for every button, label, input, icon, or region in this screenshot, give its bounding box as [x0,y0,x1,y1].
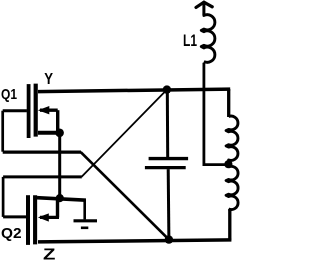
capacitor C (resonant) top plate [149,157,189,160]
wire: cross-coupling diagonal from Q2 gate run to node Y [82,90,167,177]
transformer primary lower half coil [226,166,238,209]
transistor Q2 body stub with arrow [40,216,59,219]
svg-text:L1: L1 [183,32,197,50]
wire: horizontal run at y177 to diagonal [3,175,82,178]
node: Q1 source junction dot [55,129,64,138]
wire: node Y horizontal line (Q1 drain rail) [38,89,230,92]
wire: cross-coupling diagonal from Q1 gate run to node Z [81,152,169,240]
wire: right vertical from Y line down to primary top [227,89,230,117]
inductor L1 coil [201,14,215,63]
capacitor C (resonant) bottom plate [145,166,186,169]
ground symbol short bar [81,227,88,230]
node: junction dot Z line / capacitor / cross wire [165,235,173,243]
node: centre tap junction dot [224,160,232,168]
wire: capacitor bottom lead [167,169,171,239]
transistor Q1 source stub [38,131,60,135]
transistor Q2 gate plate [26,195,30,245]
transistor Q2 body arrowhead [38,213,49,221]
transistor Q1 channel bar [34,84,38,137]
wire: ground branch from Q2 source stub [83,199,86,219]
transistor Q2 source stub (top) [37,198,86,201]
transistor Q1 body arrowhead [38,106,49,114]
transistor Q1 body stub with arrow [40,109,58,112]
wire: left edge vertical (Q2 gate) [2,177,5,217]
wire: node Z horizontal line (Q2 drain rail) [38,240,231,242]
wire: Q2 body tie up to source [56,199,59,218]
wire: right vertical from primary bottom down to Z line [228,209,231,240]
wire: left edge vertical (Q1 gate) [1,111,4,152]
wire: L1 lead down to centre tap (crosses Y line, no junction) [204,63,229,165]
ground symbol long bar [74,219,98,222]
svg-text:Q1: Q1 [1,86,17,103]
transformer primary upper half coil [226,116,238,161]
wire: horizontal run at y152 to diagonal [3,151,81,154]
wire: Q1 gate lead going left [3,109,27,112]
svg-text:Z: Z [43,247,56,261]
wire: Q1 source down to Q2 source [58,133,61,199]
transistor Q1 gate plate [27,84,31,138]
svg-text:Q2: Q2 [1,225,22,242]
wire: Q1 body tie down to source [56,110,59,133]
transistor Q2 channel bar [33,195,37,244]
node: junction dot Y line / capacitor / cross wire [163,85,171,93]
wire: Q2 gate lead going left [3,215,26,218]
supply arrow (VCC) [196,2,212,15]
svg-text:Y: Y [44,71,53,88]
node: Q2 source junction dot [56,194,64,202]
wire: capacitor top lead [166,90,169,157]
